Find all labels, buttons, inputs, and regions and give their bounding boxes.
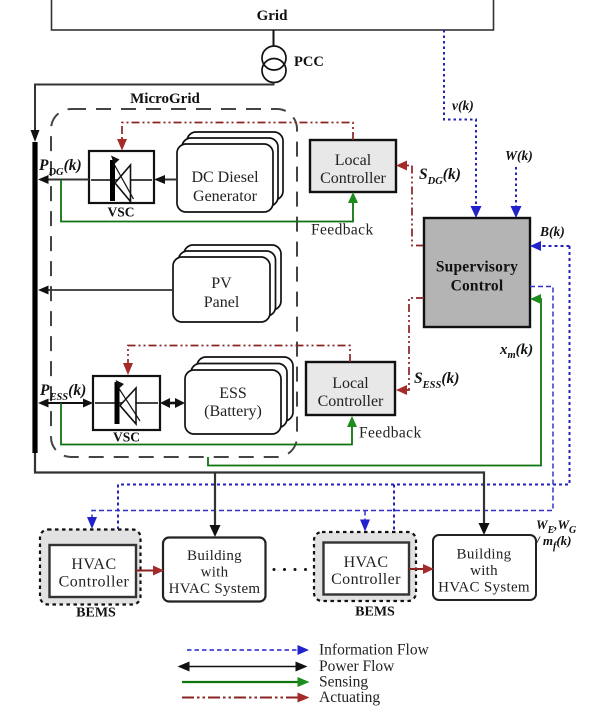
- svg-text:VSC: VSC: [107, 205, 134, 220]
- building B2 right box: [433, 535, 536, 600]
- svg-text:Generator: Generator: [193, 188, 258, 205]
- info wire v(k) from Grid to supervisory: [444, 30, 476, 207]
- legend power flow: [178, 658, 396, 675]
- info wire B(k) into supervisory and down to BEMS: [118, 241, 570, 532]
- svg-text:with: with: [201, 565, 229, 581]
- svg-text:B(k): B(k): [539, 224, 565, 239]
- VSC U3 through line: [95, 402, 158, 404]
- svg-text:HVAC: HVAC: [344, 554, 389, 571]
- local controller U2 box: [310, 140, 396, 192]
- Grid box: [52, 0, 494, 30]
- svg-text:Grid: Grid: [257, 8, 288, 24]
- svg-text:Power Flow: Power Flow: [319, 658, 395, 675]
- svg-text:MicroGrid: MicroGrid: [130, 91, 200, 107]
- svg-text:Controller: Controller: [331, 571, 401, 588]
- actuating wire S_ESS from supervisory to U4: [407, 298, 424, 390]
- svg-text:Controller: Controller: [320, 170, 386, 187]
- supervisory control U5 box: [424, 218, 530, 327]
- svg-text:Feedback: Feedback: [359, 425, 422, 442]
- battery ESS stack: [185, 357, 293, 434]
- svg-text:Panel: Panel: [204, 294, 240, 311]
- svg-text:VSC: VSC: [113, 430, 140, 445]
- svg-text:Feedback: Feedback: [311, 222, 374, 239]
- info wire branch to right BEMS: [393, 485, 395, 532]
- hvac controller U7 right BEMS box: [314, 532, 416, 601]
- info wire supervisory to HVAC controllers: [87, 287, 553, 532]
- wire Grid to PCC: [273, 30, 275, 46]
- VSC U3 triangle: [120, 388, 136, 424]
- svg-text:with: with: [470, 563, 498, 579]
- svg-text:Supervisory: Supervisory: [436, 259, 518, 276]
- svg-text:v(k): v(k): [452, 98, 474, 113]
- power wire PV to bus: [47, 289, 173, 291]
- hvac controller U6 left BEMS box: [40, 530, 141, 605]
- op VSC U1 box: [89, 151, 154, 220]
- svg-text:ESS: ESS: [219, 385, 247, 402]
- svg-text:Controller: Controller: [318, 393, 384, 410]
- MicroGrid dashed boundary: [51, 109, 297, 457]
- legend actuating: [182, 689, 380, 706]
- sensing wire VSC U1 feedback to U2: [61, 180, 353, 222]
- power wire VSC U3 to ESS double arrow: [160, 398, 185, 408]
- local controller U4 box: [306, 362, 395, 415]
- DC bus bar: [32, 142, 37, 453]
- svg-text:Information Flow: Information Flow: [319, 642, 430, 659]
- svg-text:Controller: Controller: [59, 574, 130, 591]
- actuating wire U4 to VSC U3: [128, 346, 350, 365]
- svg-text:PCC: PCC: [294, 54, 324, 70]
- svg-text:HVAC: HVAC: [71, 556, 116, 573]
- pv panel PV stack: [173, 245, 281, 322]
- svg-text:(Battery): (Battery): [204, 403, 262, 420]
- legend information flow: [187, 642, 430, 659]
- VSC U1 through line: [91, 179, 152, 181]
- VSC U1 diagonal arrow: [114, 164, 134, 199]
- svg-text:Building: Building: [457, 547, 512, 563]
- svg-text:Actuating: Actuating: [319, 689, 380, 706]
- svg-text:HVAC System: HVAC System: [169, 581, 261, 597]
- generator G1 DC Diesel stack: [177, 132, 283, 212]
- VSC U3 bar: [115, 382, 120, 424]
- info wire branch arrow right HVAC: [364, 511, 366, 521]
- wire G1 to VSC U1: [163, 179, 177, 181]
- legend sensing: [182, 674, 368, 691]
- svg-text:DC Diesel: DC Diesel: [191, 169, 259, 186]
- VSC U1 bar: [110, 160, 115, 201]
- dotted continuation between B1 and U7: [273, 568, 308, 571]
- transformer PCC: [262, 46, 324, 83]
- building B1 left box: [163, 538, 266, 602]
- svg-text:BEMS: BEMS: [355, 605, 395, 620]
- svg-text:Control: Control: [451, 278, 504, 295]
- actuating wire U6 to building B1: [136, 570, 155, 572]
- sensing wire U3 feedback to U4: [61, 403, 352, 445]
- power wire bus to VSC U3 double arrow: [38, 399, 93, 408]
- actuating wire U7 to building B2: [409, 568, 424, 570]
- svg-text:Sensing: Sensing: [319, 674, 368, 691]
- wire VSC U1 to DC bus: [47, 179, 89, 181]
- VSC U1 triangle: [115, 165, 131, 202]
- VSC U3 diagonal arrow: [118, 387, 140, 421]
- actuating wire S_DG from supervisory to U2: [407, 166, 424, 246]
- svg-text:Local: Local: [332, 375, 369, 392]
- arrowhead onto DC bus: [31, 130, 40, 142]
- op VSC U3 box: [93, 376, 160, 445]
- actuating wire U2 to VSC U1: [122, 123, 353, 141]
- power wire branch to left building: [214, 473, 216, 527]
- svg-text:PV: PV: [211, 275, 232, 292]
- svg-text:W(k): W(k): [505, 148, 533, 163]
- sensing wire x_m(k) to supervisory: [208, 299, 541, 466]
- power wire bus to buildings: [35, 453, 484, 524]
- label W_E W_G m_f(k): [535, 517, 577, 552]
- svg-text:Local: Local: [335, 152, 372, 169]
- arrowhead into DC bus: [38, 175, 49, 184]
- svg-text:HVAC System: HVAC System: [438, 580, 530, 596]
- info wire W(k) to supervisory: [515, 167, 517, 207]
- svg-text:BEMS: BEMS: [76, 606, 116, 621]
- svg-text:Building: Building: [187, 548, 242, 564]
- wire PCC to DC bus: [35, 83, 274, 133]
